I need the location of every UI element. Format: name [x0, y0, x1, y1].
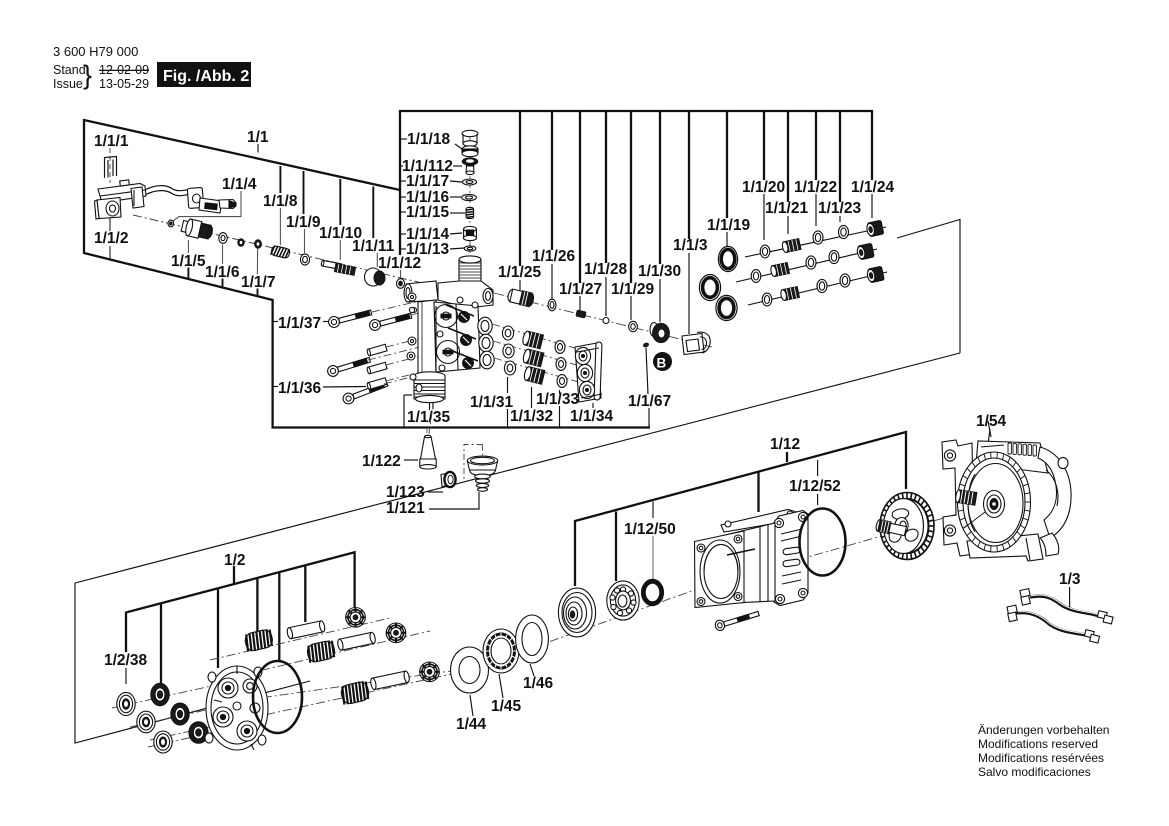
row axes dash-dot	[492, 324, 582, 383]
svg-text:1/122: 1/122	[362, 453, 401, 470]
right elbow outlet	[438, 281, 493, 308]
cable 2	[1016, 613, 1087, 635]
big O-ring 1/2	[253, 661, 302, 733]
svg-text:1/1/32: 1/1/32	[510, 408, 553, 425]
row1 axis	[745, 227, 886, 257]
pin small	[168, 220, 174, 227]
svg-text:1/1/34: 1/1/34	[570, 408, 613, 425]
svg-text:1/1/9: 1/1/9	[286, 214, 321, 231]
svg-text:1/1/35: 1/1/35	[407, 409, 450, 426]
pump centre details	[407, 304, 478, 392]
svg-text:Fig. /Abb. 2: Fig. /Abb. 2	[163, 68, 249, 85]
seat ring	[462, 158, 478, 165]
svg-text:1/2/38: 1/2/38	[104, 652, 147, 669]
clamp 1/1/3	[682, 332, 710, 354]
svg-text:1/12/52: 1/12/52	[789, 478, 841, 495]
svg-text:1/12: 1/12	[770, 436, 800, 453]
star washer SW3	[420, 662, 440, 682]
svg-text:1/1/67: 1/1/67	[628, 393, 671, 410]
svg-text:1/3: 1/3	[1059, 571, 1081, 588]
rear flange	[773, 511, 808, 606]
motor fan face	[958, 452, 1031, 552]
vertical pipe	[418, 300, 436, 376]
svg-text:Issue: Issue	[53, 77, 83, 91]
plugs 1/1/32	[522, 331, 545, 385]
svg-text:1/1/24: 1/1/24	[851, 179, 894, 196]
svg-text:1/123: 1/123	[386, 484, 425, 501]
bolt axes dash-dot	[368, 299, 436, 384]
svg-text:1/12/50: 1/12/50	[624, 521, 676, 538]
seal 1/1/30	[650, 323, 658, 337]
washer 1/1/6	[219, 233, 227, 244]
stud	[727, 549, 755, 555]
svg-text:1/1/13: 1/1/13	[406, 241, 449, 258]
hose curve	[146, 186, 189, 196]
svg-text:1/1/3: 1/1/3	[673, 237, 708, 254]
svg-text:1/1/25: 1/1/25	[498, 264, 541, 281]
svg-text:1/1/36: 1/1/36	[278, 380, 321, 397]
svg-text:1/1/31: 1/1/31	[470, 394, 513, 411]
comb 1/1 leader lines	[520, 111, 872, 283]
washer 1/1/7	[255, 240, 262, 248]
washer 1/1/16	[462, 194, 477, 200]
fitting 1/1/25	[507, 288, 535, 307]
svg-text:1/1/8: 1/1/8	[263, 193, 298, 210]
svg-text:1/1/37: 1/1/37	[278, 315, 321, 332]
washer 1/1/17	[463, 179, 477, 185]
valve 1/1/112	[466, 164, 474, 175]
svg-text:1/45: 1/45	[491, 698, 522, 715]
inlet thread top	[459, 260, 481, 281]
motor base plate	[967, 534, 1043, 561]
svg-text:1/1/6: 1/1/6	[205, 264, 240, 281]
bolt 1	[327, 307, 372, 328]
svg-text:1/1/5: 1/1/5	[171, 253, 206, 270]
pump head disc	[205, 666, 268, 750]
valve 1/1/18	[462, 130, 478, 156]
bolt for housing	[714, 609, 760, 632]
leader 1/1/2	[109, 210, 111, 231]
footer text	[978, 723, 1109, 779]
washer W3	[154, 731, 172, 753]
washers 1/1/33	[555, 341, 567, 388]
long diagonal (top of 1/2 panel)	[75, 353, 960, 583]
svg-text:1/1/7: 1/1/7	[241, 274, 275, 291]
filter 1/121	[467, 456, 497, 491]
washer 1/1/13	[464, 246, 476, 251]
svg-text:13-05-29: 13-05-29	[99, 77, 149, 91]
svg-text:1/1/33: 1/1/33	[536, 391, 579, 408]
svg-text:}: }	[83, 60, 92, 90]
washer 1/44	[451, 647, 489, 693]
label 1/122 + 1/123 + 1/121	[362, 453, 425, 517]
cable 1	[1030, 596, 1100, 616]
comb 1/1 top	[400, 111, 873, 255]
washer W2	[137, 711, 155, 733]
row axes dash-dot	[112, 506, 985, 747]
plug 1/1/27	[576, 310, 586, 318]
leader 1/1/4 offset	[173, 191, 242, 222]
comb 1/2	[126, 552, 355, 683]
bearing B1	[558, 588, 595, 637]
micro-switch pin bracket	[105, 157, 117, 179]
ring 1/1/26	[548, 299, 556, 311]
bearing B2	[607, 581, 639, 620]
outlet block with hole	[95, 198, 122, 220]
svg-text:1/2: 1/2	[224, 552, 246, 569]
cylinder body	[700, 523, 775, 605]
piston p3	[370, 671, 410, 690]
motor left mounting plate	[942, 440, 974, 556]
small flange bolts	[408, 293, 416, 301]
svg-text:1/1/18: 1/1/18	[407, 131, 450, 148]
svg-text:1/1/26: 1/1/26	[532, 248, 575, 265]
bolt 4	[342, 379, 390, 406]
spring s3	[340, 681, 371, 706]
svg-text:12-02-09: 12-02-09	[99, 63, 149, 77]
O-ring 1/12/52	[800, 509, 846, 576]
1/2 panel left edge	[75, 583, 310, 743]
plug 1/123	[441, 472, 456, 487]
leader stubs below labels	[520, 194, 872, 334]
label 1/2	[104, 413, 1081, 733]
group 1/1 box outline	[84, 120, 650, 428]
box 1/1 right corner piece	[897, 220, 960, 354]
svg-text:1/1/15: 1/1/15	[406, 204, 449, 221]
svg-text:1/1/22: 1/1/22	[794, 179, 837, 196]
ring small mid	[238, 239, 244, 247]
comb-area labels	[498, 179, 894, 298]
coupler 1/1/5	[180, 218, 214, 241]
top elbow left	[406, 281, 438, 302]
screw 1/1/10b	[334, 264, 355, 276]
main axis 1/1 dash-dot	[133, 215, 420, 283]
switch body	[98, 180, 146, 203]
ball 1/1/28	[603, 318, 609, 324]
pin 1/1/10	[321, 260, 342, 269]
thrust ring 1/45	[483, 629, 519, 673]
node B	[653, 352, 672, 371]
leaders bottom labels	[404, 348, 649, 427]
washer 1/46	[516, 615, 549, 663]
piston p1	[286, 620, 325, 639]
washer 1/1/12	[397, 279, 405, 289]
valve 1/1/14	[463, 226, 476, 240]
washers 1/1/31	[502, 326, 515, 375]
svg-text:1/1/30: 1/1/30	[638, 263, 681, 280]
top arm	[721, 510, 801, 533]
svg-text:1/1/4: 1/1/4	[222, 176, 257, 193]
svg-text:1/1: 1/1	[247, 129, 269, 146]
valve-stack labels	[402, 131, 453, 258]
bottom-edge labels	[407, 391, 671, 426]
svg-text:1/44: 1/44	[456, 716, 487, 733]
washer W1	[117, 692, 135, 715]
svg-text:1/1/17: 1/1/17	[406, 173, 449, 190]
group 1/12 box	[575, 432, 906, 586]
spring s2	[306, 640, 336, 664]
bolt 2	[368, 310, 412, 331]
row3	[762, 293, 772, 306]
svg-text:1/1/20: 1/1/20	[742, 179, 785, 196]
tick dashes for valve-stack labels	[400, 139, 465, 249]
wand adapter	[199, 198, 236, 213]
svg-text:1/1/23: 1/1/23	[818, 200, 861, 217]
svg-text:1/1/27: 1/1/27	[559, 281, 602, 298]
motor rear volute	[1038, 447, 1071, 538]
motor stator top block	[976, 441, 1048, 473]
svg-text:Änderungen vorbehalten: Änderungen vorbehalten	[978, 723, 1109, 737]
piston p2	[337, 632, 376, 651]
svg-text:Stand: Stand	[53, 63, 86, 77]
svg-text:1/1/11: 1/1/11	[352, 238, 395, 255]
cap 1/1/11	[365, 268, 382, 286]
svg-text:1/1/1: 1/1/1	[94, 133, 129, 150]
svg-text:Salvo modificaciones: Salvo modificaciones	[978, 765, 1091, 779]
star washer SW1	[346, 608, 366, 628]
motor hub bearing	[984, 491, 1005, 518]
seal S2	[171, 703, 189, 725]
svg-text:1/1/19: 1/1/19	[707, 217, 750, 234]
bottom thread 1/1/35	[414, 372, 445, 380]
svg-text:1/54: 1/54	[976, 413, 1007, 430]
svg-text:Modifications reserved: Modifications reserved	[978, 737, 1098, 751]
leader 1/54	[988, 421, 991, 437]
dash-dot L near filter	[464, 445, 483, 482]
small part leaders	[126, 429, 1070, 716]
three ports right	[478, 317, 492, 335]
spring s1	[244, 628, 274, 652]
row2 axis	[736, 249, 877, 282]
central block	[434, 302, 480, 372]
spring 1/1/15	[466, 208, 474, 219]
row1: oring, valve 1/1/21, oring, oring, plug 1/1/24	[760, 245, 770, 258]
svg-text:1/1/28: 1/1/28	[584, 261, 627, 278]
svg-text:1/121: 1/121	[386, 500, 425, 517]
star washer SW2	[386, 623, 406, 643]
row3 axis	[748, 272, 887, 305]
bolt 3	[326, 355, 371, 378]
row2	[751, 270, 761, 283]
manifold 1/1/34	[575, 342, 602, 402]
spacer sleeves	[367, 344, 388, 356]
svg-text:B: B	[657, 356, 667, 371]
pin tiny 1/1/67	[643, 343, 649, 348]
hose connector block	[187, 187, 203, 208]
stub leaders for 1/1/5..1/1/12 and 1/1	[188, 208, 400, 278]
seal S3	[189, 722, 208, 744]
motor shaft stub	[955, 489, 977, 505]
svg-text:1/1/21: 1/1/21	[765, 200, 808, 217]
Fig./Abb. box	[157, 62, 251, 87]
svg-text:1/1/29: 1/1/29	[611, 281, 654, 298]
ring 1/1/9	[300, 254, 309, 265]
seal S1	[151, 683, 169, 705]
shaft seal	[644, 582, 662, 604]
svg-text:1/1/2: 1/1/2	[94, 230, 128, 247]
stack axis	[469, 136, 471, 258]
label-to-edge stubs 1/1/5..1/1/11	[188, 166, 373, 297]
front flange	[695, 531, 745, 608]
leader 1/1/35 to part	[429, 403, 431, 410]
trigger lever	[131, 187, 144, 208]
washer 1/1/29	[629, 321, 638, 331]
gear shaft	[875, 519, 906, 537]
spring 1/1/8	[271, 245, 291, 258]
leader 1/1/1 dashed	[109, 148, 111, 183]
svg-text:3 600 H79 000: 3 600 H79 000	[53, 44, 138, 59]
labels group 1/1	[94, 129, 421, 291]
svg-text:Modifications resérvées: Modifications resérvées	[978, 751, 1104, 765]
svg-text:1/46: 1/46	[523, 675, 554, 692]
